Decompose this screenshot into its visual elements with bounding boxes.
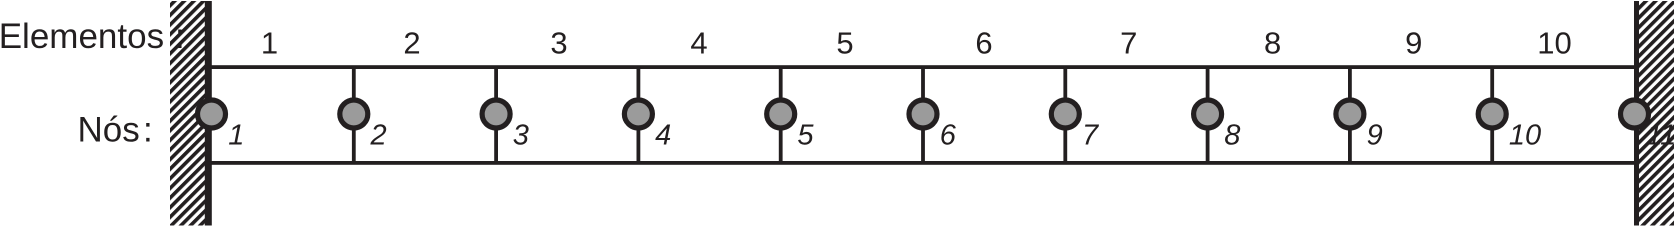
node 11 circle xyxy=(1621,100,1649,128)
svg-text:11: 11 xyxy=(1646,119,1676,151)
node 2 tick wire xyxy=(352,66,356,162)
node 5 circle xyxy=(767,100,795,128)
svg-text:Elementos: Elementos xyxy=(0,17,164,56)
node 9 tick wire xyxy=(1348,66,1352,162)
svg-text::: : xyxy=(143,111,153,150)
node 10 tick wire xyxy=(1490,66,1494,162)
right wall hatch xyxy=(1639,1,1674,226)
node 8 tick wire xyxy=(1206,66,1210,162)
node 10 circle xyxy=(1478,100,1506,128)
node 3 circle xyxy=(482,100,510,128)
node 6 tick wire xyxy=(921,66,925,162)
top chord line xyxy=(212,65,1635,69)
node 7 tick wire xyxy=(1063,66,1067,162)
svg-text:10: 10 xyxy=(1509,119,1541,151)
svg-text:7: 7 xyxy=(1120,25,1137,60)
svg-text:2: 2 xyxy=(370,119,387,151)
svg-text:3: 3 xyxy=(513,119,529,151)
node 5 tick wire xyxy=(779,66,783,162)
node 2 circle xyxy=(340,100,368,128)
svg-text:7: 7 xyxy=(1082,119,1100,151)
svg-text:4: 4 xyxy=(690,25,707,60)
left wall bar xyxy=(205,1,212,226)
node 9 circle xyxy=(1336,100,1364,128)
svg-text:5: 5 xyxy=(797,119,814,151)
node 1 circle xyxy=(198,100,226,128)
node 4 circle xyxy=(624,100,652,128)
svg-text:5: 5 xyxy=(836,25,853,60)
svg-text:6: 6 xyxy=(975,25,992,60)
bottom chord line xyxy=(212,161,1635,165)
svg-text:8: 8 xyxy=(1264,25,1281,60)
node 4 tick wire xyxy=(637,66,641,162)
left wall hatch xyxy=(170,1,206,226)
svg-text:10: 10 xyxy=(1537,25,1571,60)
svg-text::: : xyxy=(175,17,185,56)
svg-text:9: 9 xyxy=(1405,25,1422,60)
node 8 circle xyxy=(1194,100,1222,128)
svg-text:1: 1 xyxy=(261,25,278,60)
node 3 tick wire xyxy=(494,66,498,162)
svg-text:1: 1 xyxy=(228,119,244,151)
svg-text:Nós: Nós xyxy=(78,111,140,150)
node 7 circle xyxy=(1051,100,1079,128)
svg-text:4: 4 xyxy=(655,119,671,151)
svg-text:2: 2 xyxy=(403,25,420,60)
svg-text:8: 8 xyxy=(1224,119,1240,151)
svg-text:9: 9 xyxy=(1367,119,1383,151)
svg-text:3: 3 xyxy=(550,25,567,60)
node 6 circle xyxy=(909,100,937,128)
right wall bar xyxy=(1634,1,1640,226)
svg-text:6: 6 xyxy=(940,119,957,151)
